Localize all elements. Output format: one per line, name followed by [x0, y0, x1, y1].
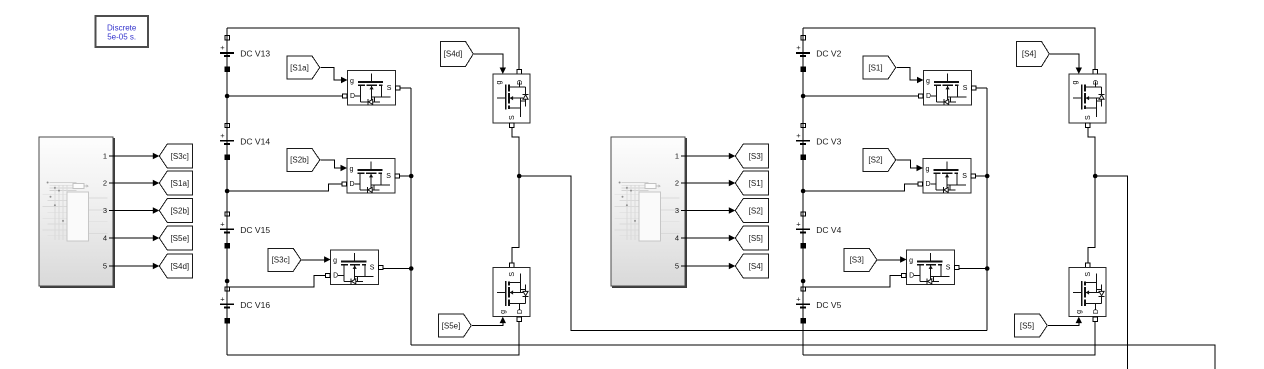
svg-text:DC V4: DC V4: [816, 225, 841, 235]
svg-text:[S1]: [S1]: [749, 179, 763, 188]
goto tag [S1a]: [159, 171, 192, 195]
wire S row3 to s-bus: [383, 268, 411, 270]
svg-text:[S2b]: [S2b]: [170, 206, 189, 215]
port S vertical bottom: [510, 263, 514, 267]
svg-text:D: D: [350, 181, 355, 188]
wire top rail: [227, 28, 519, 69]
wire port 4 to goto [S5]: [685, 237, 730, 239]
svg-text:S: S: [509, 272, 516, 277]
dc source DC V13 port +: [225, 36, 229, 40]
wire top rail: [803, 28, 1095, 69]
junction s-bus row2: [409, 174, 414, 179]
dc source DC V14 port +: [225, 123, 229, 127]
wire [S1] to gate: [896, 68, 917, 81]
from tag [S5]: [1015, 314, 1048, 337]
svg-text:[S3c]: [S3c]: [171, 152, 189, 161]
svg-text:DC V5: DC V5: [816, 300, 841, 310]
svg-text:+: +: [220, 43, 225, 52]
from tag [S1]: [863, 56, 896, 79]
from tag [S2]: [863, 148, 896, 171]
junction mid: [517, 174, 522, 179]
dc source DC V13 port -: [225, 67, 229, 71]
goto tag [S1]: [735, 171, 768, 195]
svg-text:D: D: [517, 80, 524, 85]
dc source DC V4 port +: [801, 212, 805, 216]
from tag [S2b]: [287, 148, 320, 171]
goto tag [S2]: [735, 199, 768, 223]
wire S row2 to s-bus: [399, 175, 411, 177]
svg-text:[S1a]: [S1a]: [170, 179, 189, 188]
wire port 4 to goto [S5e]: [113, 237, 154, 239]
svg-text:D: D: [1093, 80, 1100, 85]
svg-text:g: g: [500, 310, 507, 314]
wire [S4d] to gate: [474, 54, 503, 68]
mosfet Q3R body: [907, 250, 955, 285]
svg-text:DC V3: DC V3: [816, 136, 841, 146]
dc source DC V3 port +: [801, 123, 805, 127]
mosfet Q3R port D: [902, 273, 906, 277]
svg-text:2: 2: [675, 179, 679, 188]
dc source DC V5 port -: [801, 318, 805, 322]
svg-text:[S5]: [S5]: [1020, 321, 1034, 330]
svg-text:S: S: [946, 265, 951, 272]
wire port 1 to goto [S3c]: [113, 155, 154, 157]
wire right junction to lower level: [1095, 176, 1128, 369]
wire port 1 to goto [S3]: [685, 155, 730, 157]
wire s-collector bus: [986, 88, 988, 331]
junction s-bus row2: [985, 174, 990, 179]
svg-text:DC V13: DC V13: [240, 49, 270, 59]
mosfet Q3L input arrow g: [324, 256, 331, 262]
svg-text:[S5e]: [S5e]: [442, 321, 461, 330]
mosfet Q2L port D: [342, 182, 346, 186]
wire main dc bus: [226, 28, 228, 355]
dc source DC V14 port -: [225, 155, 229, 159]
mosfet Q1R input arrow g: [917, 77, 924, 83]
goto tag [S5e]: [159, 226, 192, 250]
wire S row2 to s-bus: [975, 175, 987, 177]
wire S row1 to s-bus: [400, 87, 412, 89]
wire [S4] to gate: [1050, 54, 1079, 68]
wire left output to right s-bus: [519, 176, 987, 331]
subsystem block left: [39, 137, 113, 286]
wire [S1a] to gate: [320, 68, 341, 81]
wire S row3 to s-bus: [959, 268, 987, 270]
wire vertical-top S down: [512, 128, 519, 176]
subsystem block right: [611, 137, 685, 286]
subsystem left preview: [43, 182, 108, 242]
goto tag [S4d]: [159, 254, 192, 278]
mosfet Q1R port D: [918, 94, 922, 98]
svg-text:g: g: [333, 257, 337, 264]
junction J1: [801, 94, 806, 99]
wire mid link down: [1088, 176, 1095, 263]
wire D row2: [227, 184, 343, 191]
from tag [S3c]: [268, 248, 301, 271]
svg-text:S: S: [1085, 115, 1092, 120]
port S vertical top: [1086, 123, 1090, 127]
svg-text:[S4d]: [S4d]: [170, 262, 189, 271]
junction J2: [801, 189, 806, 194]
junction J3: [801, 279, 806, 284]
dc source DC V16 port -: [225, 318, 229, 322]
mosfet Q1L port S: [395, 86, 399, 90]
svg-text:D: D: [926, 93, 931, 100]
mosfet Q2R body: [923, 159, 971, 194]
svg-text:3: 3: [103, 206, 107, 215]
svg-text:DC V2: DC V2: [816, 49, 841, 59]
wire D row1: [227, 95, 343, 97]
port D vertical bottom: [1093, 317, 1097, 321]
svg-text:5: 5: [103, 262, 107, 271]
wire D row2: [803, 184, 919, 191]
mosfet Q2R port S: [971, 174, 975, 178]
svg-text:D: D: [350, 93, 355, 100]
goto tag [S3c]: [159, 144, 192, 168]
mosfet Q3R port S: [955, 265, 959, 269]
svg-text:[S2]: [S2]: [749, 206, 763, 215]
wire port 5 to goto [S4]: [685, 265, 730, 267]
svg-text:S: S: [1085, 272, 1092, 277]
svg-text:g: g: [909, 257, 913, 264]
svg-text:[S4]: [S4]: [1022, 50, 1036, 59]
svg-text:1: 1: [103, 152, 107, 161]
svg-text:DC V14: DC V14: [240, 136, 270, 146]
dc source DC V5 port +: [801, 287, 805, 291]
mosfet Q2R port D: [918, 182, 922, 186]
port S vertical top: [510, 123, 514, 127]
junction J1: [225, 94, 230, 99]
svg-text:+: +: [796, 294, 801, 303]
subsystem right preview: [615, 182, 680, 242]
svg-text:[S2]: [S2]: [868, 156, 882, 165]
wire D row3: [227, 276, 326, 288]
from tag [S5e]: [439, 314, 472, 337]
wire bottom rail: [803, 321, 1095, 355]
wire S row1 to s-bus: [976, 87, 988, 89]
junction mid: [1093, 174, 1098, 179]
svg-text:[S3c]: [S3c]: [272, 256, 290, 265]
wire [S5e] to gate: [472, 323, 503, 326]
svg-text:g: g: [1072, 81, 1079, 85]
dc source DC V3 port -: [801, 155, 805, 159]
wire port 3 to goto [S2b]: [113, 210, 154, 212]
svg-text:D: D: [1093, 309, 1100, 314]
svg-text:1: 1: [675, 152, 679, 161]
mosfet Q1L body: [348, 71, 396, 106]
svg-text:[S5e]: [S5e]: [170, 234, 189, 243]
svg-text:[S4d]: [S4d]: [444, 50, 463, 59]
wire [S2b] to gate: [320, 160, 341, 168]
wire port 3 to goto [S2]: [685, 210, 730, 212]
svg-text:S: S: [387, 85, 392, 92]
mosfet Q2L input arrow g: [341, 165, 348, 171]
svg-text:D: D: [517, 309, 524, 314]
goto tag [S4]: [735, 254, 768, 278]
dc source DC V16 port +: [225, 287, 229, 291]
mosfet Q3L port S: [379, 265, 383, 269]
junction J2: [225, 189, 230, 194]
wire left s-bus to lower level: [411, 345, 1215, 369]
svg-text:[S4]: [S4]: [749, 262, 763, 271]
svg-text:[S3]: [S3]: [850, 256, 864, 265]
port D vertical top: [517, 69, 521, 73]
svg-text:[S2b]: [S2b]: [290, 156, 309, 165]
wire D row1: [803, 95, 919, 97]
svg-text:[S1a]: [S1a]: [290, 63, 309, 72]
svg-text:D: D: [926, 181, 931, 188]
mosfet Q2R input arrow g: [917, 165, 924, 171]
wire [S3c] to gate: [302, 259, 325, 261]
goto tag [S2b]: [159, 199, 192, 223]
svg-text:2: 2: [103, 179, 107, 188]
svg-text:g: g: [926, 78, 930, 85]
dc source DC V4 port -: [801, 243, 805, 247]
mosfet Q1L port D: [342, 94, 346, 98]
svg-text:[S5]: [S5]: [749, 234, 763, 243]
mosfet Q3R input arrow g: [900, 256, 907, 262]
svg-text:4: 4: [675, 234, 679, 243]
svg-text:[S3]: [S3]: [749, 152, 763, 161]
svg-text:5: 5: [675, 262, 679, 271]
svg-text:Discrete: Discrete: [107, 24, 137, 33]
from tag [S4]: [1017, 41, 1050, 66]
junction s-bus row3: [985, 266, 990, 271]
svg-text:4: 4: [103, 234, 107, 243]
annotation sample time box: [96, 16, 149, 47]
mosfet Q4R body: [1069, 74, 1106, 123]
svg-text:+: +: [220, 219, 225, 228]
from tag [S3]: [844, 248, 877, 271]
svg-text:3: 3: [675, 206, 679, 215]
wire [S2] to gate: [896, 160, 917, 168]
svg-text:[S1]: [S1]: [868, 63, 882, 72]
port D vertical bottom: [517, 317, 521, 321]
mosfet Q3L body: [331, 250, 379, 285]
dc source DC V15 port +: [225, 212, 229, 216]
svg-text:D: D: [909, 272, 914, 279]
wire vertical-top S down: [1088, 128, 1095, 176]
wire port 2 to goto [S1a]: [113, 182, 154, 184]
mosfet Q1L input arrow g: [341, 77, 348, 83]
svg-text:g: g: [350, 78, 354, 85]
svg-text:+: +: [796, 43, 801, 52]
from tag [S4d]: [441, 41, 474, 66]
svg-text:g: g: [350, 166, 354, 173]
mosfet Q5R body: [1069, 268, 1106, 317]
from tag [S1a]: [287, 56, 320, 79]
wire main dc bus: [802, 28, 804, 355]
dc source DC V2 port -: [801, 67, 805, 71]
mosfet Q5L body: [493, 268, 530, 317]
goto tag [S5]: [735, 226, 768, 250]
mosfet Q1R port S: [971, 86, 975, 90]
wire D row3: [803, 276, 902, 288]
svg-text:5e-05 s.: 5e-05 s.: [107, 32, 136, 41]
port S vertical bottom: [1086, 263, 1090, 267]
svg-text:+: +: [796, 219, 801, 228]
svg-text:+: +: [220, 131, 225, 140]
goto tag [S3]: [735, 144, 768, 168]
port D vertical top: [1093, 69, 1097, 73]
svg-text:+: +: [796, 131, 801, 140]
junction J3: [225, 279, 230, 284]
svg-text:S: S: [963, 85, 968, 92]
mosfet Q2L port S: [395, 174, 399, 178]
wire [S5] to gate: [1048, 323, 1079, 326]
svg-text:+: +: [220, 294, 225, 303]
dc source DC V2 port +: [801, 36, 805, 40]
wire mid link down: [512, 176, 519, 263]
svg-text:S: S: [370, 265, 375, 272]
mosfet Q3L port D: [326, 273, 330, 277]
svg-text:g: g: [1076, 310, 1083, 314]
svg-text:S: S: [386, 173, 391, 180]
svg-text:g: g: [926, 166, 930, 173]
mosfet Q2L body: [347, 159, 395, 194]
svg-text:D: D: [333, 272, 338, 279]
wire [S3] to gate: [878, 259, 901, 261]
svg-text:g: g: [496, 81, 503, 85]
wire port 2 to goto [S1]: [685, 182, 730, 184]
wire port 5 to goto [S4d]: [113, 265, 154, 267]
wire bottom rail: [227, 321, 519, 355]
svg-text:S: S: [509, 115, 516, 120]
mosfet Q1R body: [924, 71, 972, 106]
junction s-bus row3: [409, 266, 414, 271]
svg-text:DC V15: DC V15: [240, 225, 270, 235]
wire s-collector bus: [410, 88, 412, 345]
svg-text:DC V16: DC V16: [240, 300, 270, 310]
svg-text:S: S: [962, 173, 967, 180]
dc source DC V15 port -: [225, 243, 229, 247]
mosfet Q4L body: [493, 74, 530, 123]
